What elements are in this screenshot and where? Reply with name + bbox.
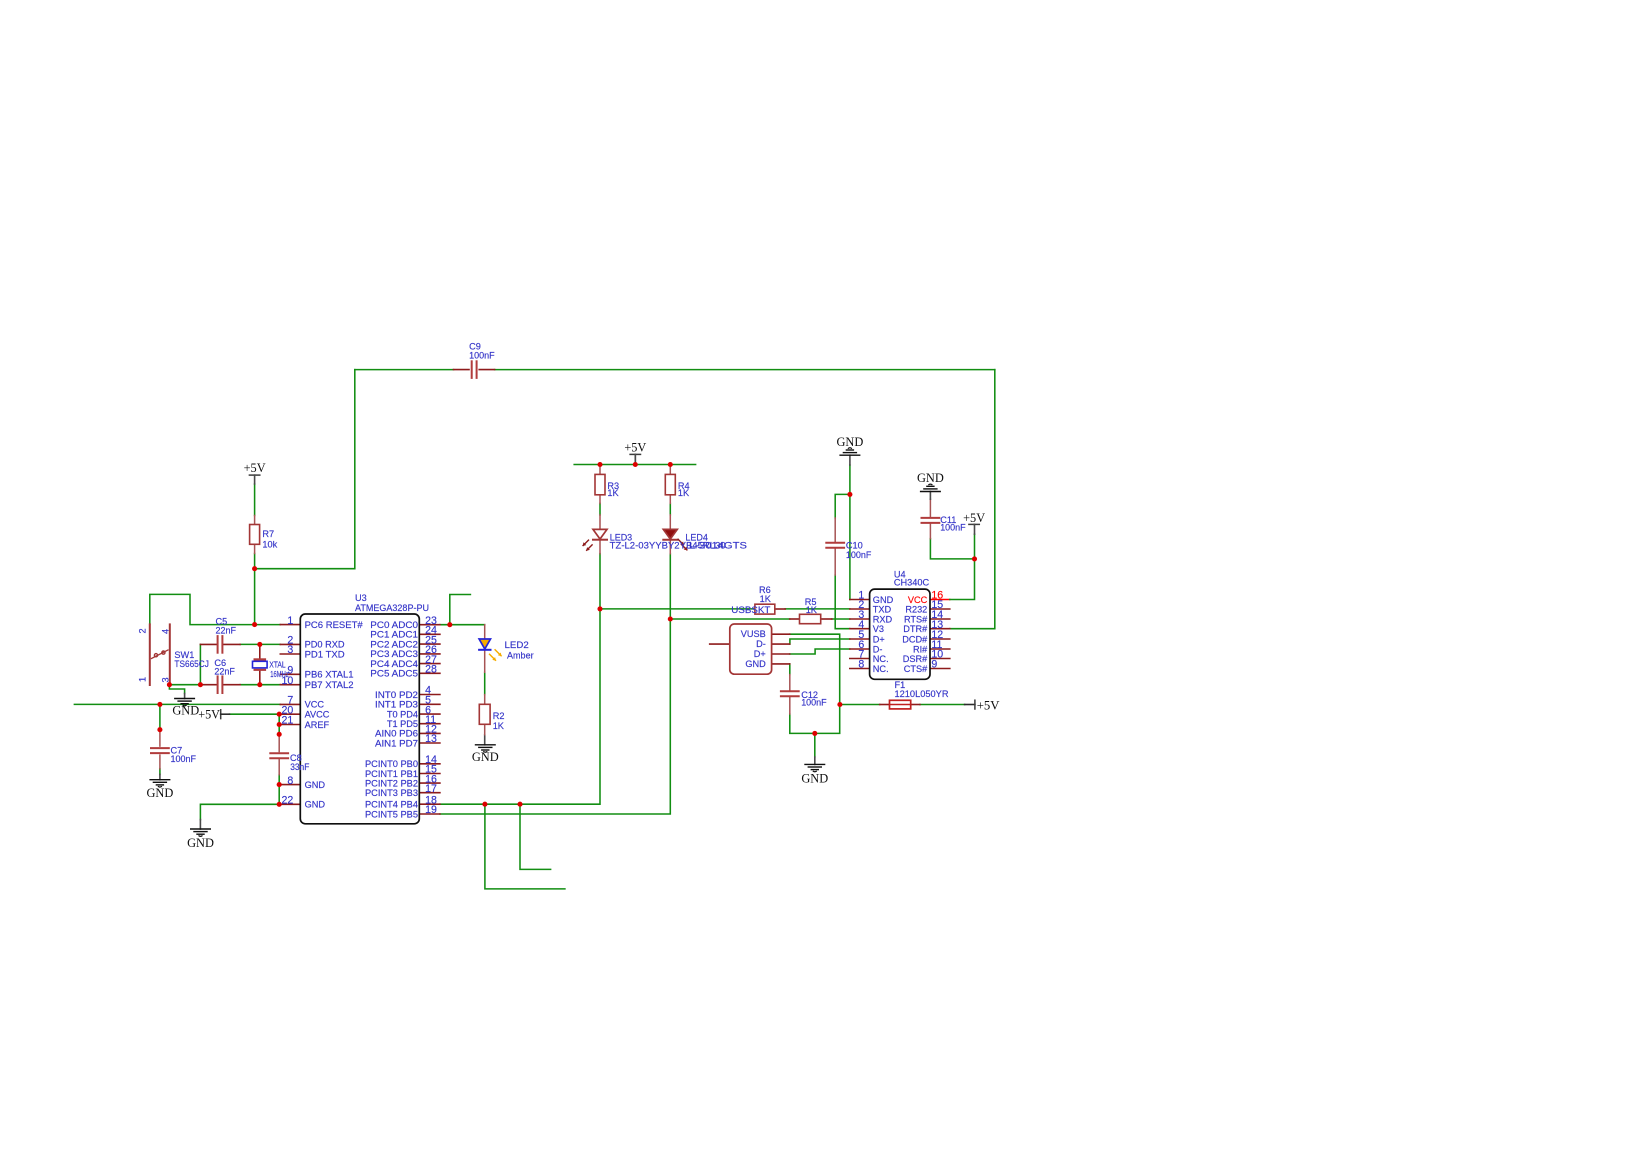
svg-text:NC.: NC. xyxy=(873,664,889,674)
svg-text:T0 PD4: T0 PD4 xyxy=(387,709,418,719)
svg-text:VCC: VCC xyxy=(305,700,325,710)
svg-text:1: 1 xyxy=(137,677,147,682)
svg-text:GND: GND xyxy=(917,471,944,485)
svg-text:GND: GND xyxy=(745,659,766,669)
svg-text:3: 3 xyxy=(161,677,171,682)
svg-text:R7: R7 xyxy=(262,529,274,539)
svg-text:PC4 ADC4: PC4 ADC4 xyxy=(370,659,418,669)
svg-text:DSR#: DSR# xyxy=(903,654,928,664)
svg-text:+5V: +5V xyxy=(977,698,1001,712)
svg-text:22nF: 22nF xyxy=(216,626,237,636)
svg-text:GND: GND xyxy=(801,771,828,785)
svg-text:PD0 RXD: PD0 RXD xyxy=(305,640,345,650)
svg-text:1K: 1K xyxy=(760,594,772,604)
svg-text:100nF: 100nF xyxy=(940,522,966,532)
svg-text:CTS#: CTS# xyxy=(904,664,928,674)
svg-text:GND: GND xyxy=(305,780,326,790)
svg-text:PCINT5 PB5: PCINT5 PB5 xyxy=(365,809,418,819)
svg-text:AIN1 PD7: AIN1 PD7 xyxy=(375,738,418,748)
svg-text:AREF: AREF xyxy=(305,720,330,730)
svg-text:DCD#: DCD# xyxy=(902,634,928,644)
svg-text:V3: V3 xyxy=(873,624,884,634)
svg-text:GND: GND xyxy=(187,836,214,850)
svg-text:PD1 TXD: PD1 TXD xyxy=(305,649,345,659)
svg-text:D-: D- xyxy=(756,639,766,649)
svg-text:TS665CJ: TS665CJ xyxy=(174,659,209,669)
svg-text:PC3 ADC3: PC3 ADC3 xyxy=(370,649,418,659)
svg-text:100nF: 100nF xyxy=(801,697,827,707)
svg-text:PB6 XTAL1: PB6 XTAL1 xyxy=(305,670,354,680)
svg-text:RI#: RI# xyxy=(913,644,928,654)
svg-text:28: 28 xyxy=(425,664,437,676)
svg-text:AVCC: AVCC xyxy=(305,710,330,720)
svg-text:GND: GND xyxy=(305,800,326,810)
svg-text:22nF: 22nF xyxy=(214,667,235,677)
svg-text:19: 19 xyxy=(425,804,437,816)
svg-text:9: 9 xyxy=(931,659,937,671)
svg-text:D+: D+ xyxy=(754,649,766,659)
svg-text:VUSB: VUSB xyxy=(741,629,766,639)
svg-text:1K: 1K xyxy=(607,488,619,498)
svg-text:Amber: Amber xyxy=(507,650,534,660)
svg-text:+5V: +5V xyxy=(244,461,266,475)
svg-text:TXD: TXD xyxy=(873,604,892,614)
svg-text:PC6 RESET#: PC6 RESET# xyxy=(305,620,364,630)
svg-text:VCC: VCC xyxy=(908,595,928,605)
svg-text:U3: U3 xyxy=(355,593,367,603)
svg-text:PC5 ADC5: PC5 ADC5 xyxy=(370,669,418,679)
svg-text:1K: 1K xyxy=(493,721,505,731)
svg-text:PCINT2 PB2: PCINT2 PB2 xyxy=(365,778,418,788)
svg-text:GND: GND xyxy=(873,595,894,605)
svg-text:PC1 ADC1: PC1 ADC1 xyxy=(370,630,418,640)
svg-text:PCINT4 PB4: PCINT4 PB4 xyxy=(365,800,418,810)
svg-text:1K: 1K xyxy=(678,488,690,498)
svg-text:D+: D+ xyxy=(873,634,885,644)
svg-text:GND: GND xyxy=(146,786,173,800)
svg-text:PCINT3 PB3: PCINT3 PB3 xyxy=(365,788,418,798)
svg-text:AIN0 PD6: AIN0 PD6 xyxy=(375,729,418,739)
svg-text:GND: GND xyxy=(836,435,863,449)
svg-text:L-3014GTS: L-3014GTS xyxy=(689,541,747,551)
svg-text:+5V: +5V xyxy=(963,511,985,525)
svg-text:NC.: NC. xyxy=(873,654,889,664)
svg-text:100nF: 100nF xyxy=(846,550,872,560)
svg-text:100nF: 100nF xyxy=(469,350,495,360)
svg-text:C10: C10 xyxy=(846,540,863,550)
svg-text:ATMEGA328P-PU: ATMEGA328P-PU xyxy=(355,603,429,613)
svg-text:2: 2 xyxy=(137,628,147,633)
svg-text:GND: GND xyxy=(172,703,199,717)
svg-text:LED2: LED2 xyxy=(505,640,529,650)
svg-text:10k: 10k xyxy=(262,540,277,550)
svg-text:17: 17 xyxy=(425,783,437,795)
svg-text:DTR#: DTR# xyxy=(903,624,928,634)
svg-text:R2: R2 xyxy=(493,711,505,721)
svg-text:T1 PD5: T1 PD5 xyxy=(387,719,418,729)
svg-text:10: 10 xyxy=(282,675,294,687)
svg-text:1K: 1K xyxy=(806,605,818,615)
svg-text:D-: D- xyxy=(873,644,883,654)
svg-text:RTS#: RTS# xyxy=(904,614,928,624)
svg-text:1210L050YR: 1210L050YR xyxy=(895,689,949,699)
svg-text:13: 13 xyxy=(425,733,437,745)
svg-text:PB7 XTAL2: PB7 XTAL2 xyxy=(305,680,354,690)
svg-text:33nF: 33nF xyxy=(290,762,310,772)
svg-text:RXD: RXD xyxy=(873,614,893,624)
svg-text:INT0 PD2: INT0 PD2 xyxy=(375,690,418,700)
svg-text:PC0 ADC0: PC0 ADC0 xyxy=(370,620,418,630)
svg-text:8: 8 xyxy=(858,659,864,671)
svg-text:GND: GND xyxy=(472,750,499,764)
svg-text:PCINT1 PB1: PCINT1 PB1 xyxy=(365,769,418,779)
svg-text:PC2 ADC2: PC2 ADC2 xyxy=(370,639,418,649)
svg-text:+5V: +5V xyxy=(624,440,646,454)
svg-text:R232: R232 xyxy=(905,604,927,614)
svg-text:4: 4 xyxy=(161,629,171,634)
svg-text:21: 21 xyxy=(282,715,294,727)
svg-text:8: 8 xyxy=(287,775,293,787)
svg-text:3: 3 xyxy=(287,644,293,656)
svg-text:22: 22 xyxy=(282,795,294,807)
svg-text:100nF: 100nF xyxy=(171,754,197,764)
svg-text:+5V: +5V xyxy=(198,708,220,722)
svg-text:PCINT0 PB0: PCINT0 PB0 xyxy=(365,759,418,769)
svg-text:1: 1 xyxy=(287,615,293,627)
svg-text:INT1 PD3: INT1 PD3 xyxy=(375,700,418,710)
svg-text:USBSKT: USBSKT xyxy=(731,605,771,615)
svg-text:CH340C: CH340C xyxy=(894,578,930,588)
